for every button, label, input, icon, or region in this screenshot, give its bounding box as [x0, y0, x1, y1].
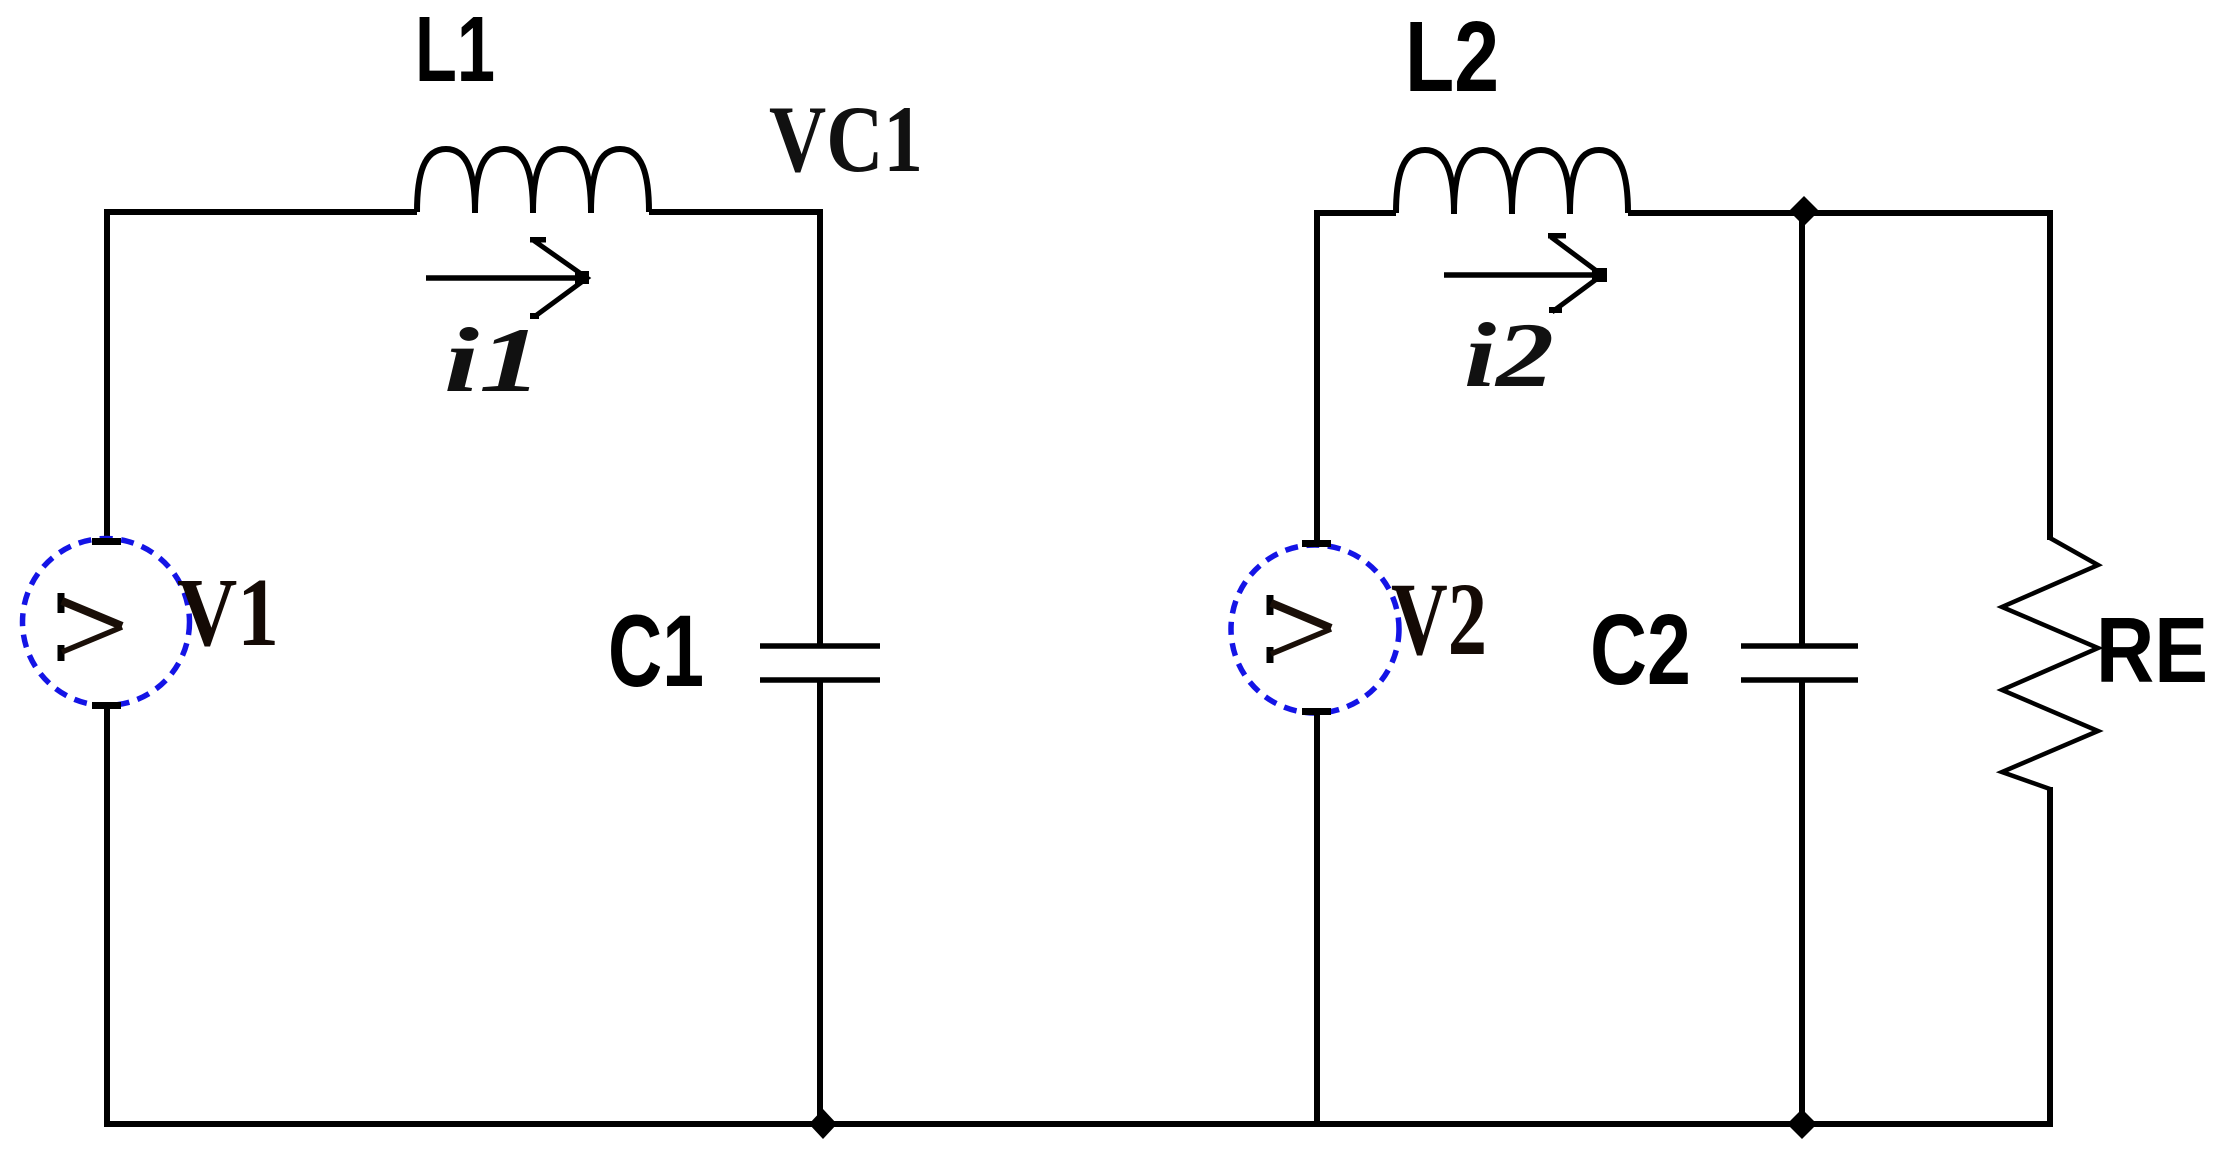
wire L2 to top-right corner	[1628, 210, 2053, 216]
resistor RE zigzag	[2002, 538, 2098, 789]
wire V1 rail top vertical	[104, 209, 110, 540]
wire V2 rail top vertical	[1314, 210, 1320, 546]
svg-text:V1: V1	[177, 559, 279, 667]
wire junction down to C2	[1799, 211, 1805, 646]
svg-text:i2: i2	[1464, 304, 1554, 406]
wire C1 down to bottom rail	[817, 680, 823, 1124]
svg-text:i1: i1	[444, 309, 542, 411]
wire C2 down to bottom rail	[1799, 680, 1805, 1124]
current arrow i2	[1444, 233, 1607, 313]
capacitor C1	[760, 646, 880, 680]
voltage source V2	[1231, 540, 1399, 715]
svg-text:V2: V2	[1391, 562, 1487, 677]
wire top-left horizontal from V1 rail to L1	[104, 209, 417, 215]
svg-text:C1: C1	[608, 594, 704, 708]
wire L1 to C1 corner	[649, 209, 823, 215]
wire V1 bottom vertical	[104, 705, 110, 1124]
capacitor C2	[1741, 646, 1858, 680]
svg-text:VC1: VC1	[769, 86, 923, 192]
bottom rail wire	[104, 1121, 2053, 1127]
wire RE down to bottom-right corner	[2047, 787, 2053, 1124]
inductor L2	[1396, 150, 1628, 214]
current arrow i1	[426, 237, 589, 319]
wire VC1 down to C1	[817, 209, 823, 646]
wire top of right loop: corner to L2	[1314, 210, 1396, 216]
junction node at C1 bottom	[809, 1109, 837, 1139]
junction node at C2 bottom	[1787, 1109, 1817, 1139]
junction node top (above C2)	[1789, 196, 1819, 226]
inductor L1	[417, 149, 649, 213]
svg-text:L2: L2	[1405, 1, 1499, 113]
voltage source V1	[23, 538, 190, 709]
wire top-right corner down to RE	[2047, 210, 2053, 540]
svg-text:L1: L1	[415, 0, 495, 101]
wire V2 bottom vertical	[1314, 713, 1320, 1124]
svg-text:RE: RE	[2096, 598, 2208, 702]
svg-text:C2: C2	[1590, 594, 1691, 706]
